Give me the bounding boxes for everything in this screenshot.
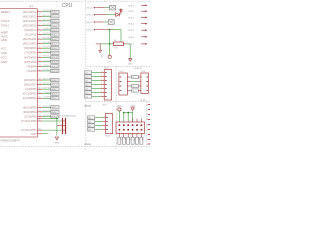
diode D2 vertical (120, 8, 122, 14)
IC U1 pin row (OC1B)PB2 with wire and net flag (37, 97, 42, 99)
svg-text:PD1-9: PD1-9 (51, 53, 56, 55)
fuse F2 (108, 20, 114, 25)
svg-text:5V3-3: 5V3-3 (87, 22, 94, 24)
junction row4 top (109, 29, 111, 31)
svg-text:OC1A)PB1: OC1A)PB1 (43, 91, 52, 94)
svg-text:(TOSC1)PB6: (TOSC1)PB6 (21, 119, 37, 123)
svg-text:JP/SV IO: JP/SV IO (134, 68, 143, 70)
svg-text:CPU: CPU (62, 3, 73, 9)
resistor R2 4.7k (114, 42, 124, 46)
diode D1 (116, 13, 120, 17)
IC U1 pin row (ICP)PB0 with wire and net flag (37, 88, 42, 90)
svg-text:(INT0)PD2: (INT0)PD2 (24, 55, 37, 59)
header JP1 top pin stubs (132, 119, 134, 122)
svg-text:(SDA)PC4: (SDA)PC4 (43, 27, 51, 30)
svg-text:ADC7)AD7: ADC7)AD7 (43, 41, 52, 44)
IC U1 pin row (ADC2)PC2 with wire and net flag (37, 20, 42, 22)
svg-text:5V3-4: 5V3-4 (128, 24, 135, 26)
svg-text:PD6-0: PD6-0 (51, 80, 56, 82)
ground symbol GND right of R2 (129, 59, 132, 62)
svg-text:GND: GND (54, 143, 59, 145)
svg-text:INT1)PD3: INT1)PD3 (43, 60, 51, 62)
svg-text:3: 3 (101, 79, 102, 81)
svg-text:(MISO)PB4: (MISO)PB4 (23, 110, 37, 114)
svg-text:4: 4 (39, 19, 40, 21)
svg-text:15: 15 (39, 69, 41, 71)
wire GND vertical from resonator center (56, 118, 58, 135)
svg-text:(ICP)PB0: (ICP)PB0 (25, 87, 37, 91)
svg-text:(RXD)PD0: (RXD)PD0 (43, 47, 52, 49)
svg-text:PD2-10: PD2-10 (51, 57, 57, 59)
svg-text:5V3-4: 5V3-4 (87, 30, 94, 32)
svg-text:17: 17 (39, 83, 41, 85)
svg-text:3: 3 (39, 15, 40, 17)
svg-text:A1: A1 (88, 120, 90, 123)
IC U1 ATMEGA328P body (0, 8, 37, 10)
svg-text:PD7-1: PD7-1 (51, 84, 56, 86)
svg-text:PD4-12: PD4-12 (51, 66, 57, 68)
svg-text:12: 12 (39, 56, 41, 58)
svg-text:PB5-7: PB5-7 (51, 116, 56, 118)
svg-text:(ADC2)PC2: (ADC2)PC2 (23, 19, 37, 23)
header JP1 body (116, 122, 145, 133)
connector SV2 wires and flags (88, 116, 95, 119)
svg-text:23: 23 (39, 115, 41, 117)
cropped neighbor section pins right edge (148, 104, 150, 106)
svg-text:więcej: więcej (84, 143, 91, 146)
svg-text:PD5-13: PD5-13 (51, 71, 57, 73)
svg-text:PC2-2: PC2-2 (51, 21, 56, 23)
svg-text:7: 7 (39, 33, 40, 35)
svg-text:GND: GND (100, 54, 102, 59)
svg-text:SV2: SV2 (103, 105, 108, 107)
svg-text:R2: R2 (114, 40, 116, 42)
svg-text:więcej: więcej (84, 104, 91, 107)
svg-text:ADC2)PC2: ADC2)PC2 (43, 18, 52, 21)
IC U1 pin GND wire (37, 133, 42, 135)
svg-text:4.7k: 4.7k (114, 48, 118, 50)
svg-text:(MOSI)PB3: (MOSI)PB3 (23, 105, 37, 109)
svg-text:P0: P0 (119, 138, 121, 140)
svg-text:PD0-8: PD0-8 (51, 48, 56, 50)
svg-text:5V3-1: 5V3-1 (87, 8, 94, 10)
svg-text:5: 5 (101, 87, 102, 89)
svg-text:PB3-5: PB3-5 (51, 107, 56, 109)
svg-text:D4: D4 (85, 88, 87, 90)
svg-text:VCC: VCC (1, 55, 7, 59)
svg-text:INT0)PD2: INT0)PD2 (43, 56, 51, 58)
svg-text:21: 21 (39, 106, 41, 108)
wire to resistor (110, 43, 114, 45)
connector SV4 body (141, 73, 149, 94)
svg-text:ADC1)PC1: ADC1)PC1 (43, 14, 52, 17)
svg-text:GND: GND (128, 64, 133, 66)
svg-text:GND: GND (1, 51, 7, 55)
svg-text:6: 6 (39, 28, 40, 30)
svg-text:(T1)PD5: (T1)PD5 (27, 69, 37, 73)
IC U1 pin row (T0)PD4 with wire and net flag (37, 65, 42, 67)
wire row1 (96, 7, 104, 9)
svg-text:(ADC7)AD7: (ADC7)AD7 (23, 42, 37, 46)
net flags between connectors (132, 75, 139, 78)
svg-text:16: 16 (39, 78, 41, 80)
IC U1 pin row (MOSI)PB3 with wire and net flag (37, 106, 42, 108)
svg-text:2: 2 (39, 10, 40, 12)
svg-text:19: 19 (39, 92, 41, 94)
svg-text:1: 1 (101, 71, 102, 73)
IC U1 pin row (INT0)PD2 with wire and net flag (37, 56, 42, 58)
svg-text:PC0-0: PC0-0 (51, 12, 56, 14)
IC U1 pin row (MISO)PB4 with wire and net flag (37, 111, 42, 113)
svg-text:(T0)PD4: (T0)PD4 (43, 65, 50, 67)
svg-text:PC1-1: PC1-1 (51, 16, 56, 18)
fuse F1 (110, 5, 116, 10)
svg-text:(ADC1)PC1: (ADC1)PC1 (23, 14, 37, 18)
junction dots header (123, 112, 125, 114)
svg-text:(ADC3)PC3: (ADC3)PC3 (23, 23, 37, 27)
svg-text:20: 20 (39, 97, 41, 99)
svg-text:ADC6)AD6: ADC6)AD6 (43, 37, 52, 40)
ground symbol GND below resonator (55, 137, 58, 140)
svg-text:XTAL2: XTAL2 (1, 19, 10, 23)
wire row3 (96, 21, 103, 23)
svg-text:(TXD)PD1: (TXD)PD1 (43, 51, 51, 53)
svg-text:10: 10 (39, 47, 41, 49)
svg-text:5V3-5: 5V3-5 (128, 30, 135, 32)
svg-text:(ADC6)AD6: (ADC6)AD6 (23, 37, 37, 41)
svg-text:5V3-1: 5V3-1 (128, 5, 135, 7)
svg-text:D2: D2 (122, 11, 124, 13)
svg-text:(SCL)PC5: (SCL)PC5 (43, 33, 51, 35)
IC U1 pin row (AIN1)PD7 with wire and net flag (37, 84, 42, 86)
svg-text:GND: GND (1, 60, 7, 64)
svg-text:VCC: VCC (1, 46, 7, 50)
svg-text:A0: A0 (88, 116, 90, 119)
wire junction to flag (100, 43, 109, 45)
IC U1 pin row (SDA)PC4 with wire and net flag (37, 29, 42, 31)
CPU section dashed border (0, 0, 85, 2)
IC U1 pin row (SCK)PB5 with wire and net flag (37, 115, 42, 117)
IC U1 pin row (ADC7)AD7 with wire and net flag (37, 43, 42, 45)
svg-text:13: 13 (39, 60, 41, 62)
wire row2 (96, 14, 106, 16)
svg-text:GND: GND (31, 132, 37, 136)
svg-text:5V3-6: 5V3-6 (128, 37, 135, 39)
svg-text:MOSI)PB3: MOSI)PB3 (43, 106, 52, 108)
connector SV1 wires and net flags (85, 71, 92, 74)
svg-text:14: 14 (39, 65, 41, 67)
svg-text:18: 18 (39, 87, 41, 89)
supply symbol VCC below row4 (108, 55, 111, 58)
IC U1 pin PB6(XTAL1) wire to resonator (37, 120, 42, 122)
svg-text:(SDA)PC4: (SDA)PC4 (24, 28, 37, 32)
svg-text:ADC3)PC3: ADC3)PC3 (43, 23, 52, 26)
svg-text:5V3-2: 5V3-2 (128, 11, 135, 13)
svg-text:(OC1B)PB2: (OC1B)PB2 (23, 96, 37, 100)
svg-text:5V3-7: 5V3-7 (128, 44, 135, 46)
svg-text:9: 9 (39, 119, 40, 121)
svg-text:D5: D5 (85, 92, 87, 94)
svg-text:VCC: VCC (107, 62, 112, 64)
svg-text:(INT1)PD3: (INT1)PD3 (24, 60, 37, 64)
IC U1 pin row (RXD)PD0 with wire and net flag (37, 47, 42, 49)
svg-text:JP M0: JP M0 (140, 100, 147, 102)
svg-text:ADC0)PC0: ADC0)PC0 (43, 9, 52, 12)
svg-text:P2: P2 (128, 138, 130, 140)
svg-text:(SCK)PB5: (SCK)PB5 (24, 114, 37, 118)
IC U1 pin row (OC1A)PB1 with wire and net flag (37, 93, 42, 95)
svg-text:(ICP)PB0: (ICP)PB0 (43, 88, 51, 90)
resonator Y1 center pin stub (57, 125, 62, 127)
svg-text:6: 6 (101, 91, 102, 93)
svg-text:P5: P5 (141, 138, 143, 140)
svg-text:PB0-2: PB0-2 (51, 89, 56, 91)
svg-text:SV3: SV3 (119, 71, 124, 73)
IC U1 pin PB7(XTAL2) wire to resonator (37, 129, 42, 131)
IC U1 pin row (SCL)PC5 with wire and net flag (37, 34, 42, 36)
svg-text:4: 4 (101, 83, 102, 85)
wire row4 with bends (96, 29, 113, 31)
svg-text:AD7-7: AD7-7 (51, 43, 56, 46)
svg-text:OC1B)PB2: OC1B)PB2 (43, 97, 52, 99)
svg-text:PB2-4: PB2-4 (51, 98, 56, 100)
svg-text:5V3-2: 5V3-2 (87, 15, 94, 17)
svg-text:AIN0)PD6: AIN0)PD6 (43, 77, 51, 80)
svg-text:(ADC0)PC0: (ADC0)PC0 (23, 10, 37, 14)
svg-text:(SCL)PC5: (SCL)PC5 (25, 33, 37, 37)
svg-text:P3: P3 (132, 138, 134, 140)
wires from VCC and GND to header (118, 111, 120, 122)
svg-text:AIN1)PD7: AIN1)PD7 (43, 82, 51, 85)
connector SV1 body (104, 70, 111, 100)
svg-text:PB1-3: PB1-3 (51, 94, 56, 96)
IC U1 pin row (ADC3)PC3 with wire and net flag (37, 24, 42, 26)
svg-text:A2: A2 (88, 124, 90, 127)
svg-text:D3: D3 (85, 84, 87, 86)
svg-text:MISO)PB4: MISO)PB4 (43, 110, 52, 112)
svg-text:GND: GND (1, 38, 7, 42)
svg-text:9: 9 (39, 42, 40, 44)
junction resonator GND (56, 118, 58, 120)
IC U1 pin row (AIN0)PD6 with wire and net flag (37, 79, 42, 81)
IC U1 pin row (INT1)PD3 with wire and net flag (37, 61, 42, 63)
svg-text:22: 22 (39, 110, 41, 112)
svg-text:5V3-3: 5V3-3 (128, 17, 135, 19)
resonator Y1 CSTCE16M0V53 body (62, 118, 63, 134)
svg-text:1X04: 1X04 (105, 136, 111, 138)
svg-text:AD6-6: AD6-6 (51, 38, 56, 41)
svg-text:RESET: RESET (1, 10, 11, 14)
svg-text:(TOSC2)PB7: (TOSC2)PB7 (21, 128, 37, 132)
svg-text:D0: D0 (85, 72, 87, 74)
right sections dashed borders (87, 0, 150, 2)
svg-text:A3: A3 (88, 128, 90, 131)
svg-text:D2: D2 (85, 80, 87, 82)
svg-text:8: 8 (39, 37, 40, 39)
svg-text:D1: D1 (85, 76, 87, 78)
IC U1 pin row (ADC0)PC0 with wire and net flag (37, 11, 42, 13)
ground flag left of R2 (96, 43, 100, 45)
IC U1 pin row (T1)PD5 with wire and net flag (37, 70, 42, 72)
IC U1 pin row (ADC6)AD6 with wire and net flag (37, 38, 42, 40)
svg-text:PD3-11: PD3-11 (51, 62, 57, 64)
svg-text:CSTCE16M0V53-R0: CSTCE16M0V53-R0 (57, 115, 76, 117)
svg-text:5: 5 (39, 24, 40, 26)
svg-text:(AIN1)PD7: (AIN1)PD7 (24, 83, 37, 87)
svg-text:(RXD)PD0: (RXD)PD0 (24, 46, 37, 50)
svg-text:7: 7 (101, 95, 102, 97)
svg-text:11: 11 (39, 51, 41, 53)
svg-text:P4: P4 (137, 138, 139, 140)
header JP1 bottom pin stubs (118, 133, 120, 137)
svg-text:IC1: IC1 (29, 5, 33, 8)
svg-text:(T0)PD4: (T0)PD4 (27, 64, 37, 68)
svg-text:(OC1A)PB1: (OC1A)PB1 (23, 92, 37, 96)
header JP1 bottom net flags (118, 137, 121, 144)
svg-text:P1: P1 (124, 138, 126, 140)
IC U1 pin row (TXD)PD1 with wire and net flag (37, 52, 42, 54)
svg-text:D6: D6 (85, 96, 87, 98)
svg-text:PC3-3: PC3-3 (51, 25, 56, 27)
svg-text:XTAL1: XTAL1 (1, 24, 10, 28)
wire resistor to GND (127, 43, 131, 45)
connector SV4 left pins (138, 76, 141, 78)
IC U1 pin row (ADC1)PC1 with wire and net flag (37, 15, 42, 17)
svg-text:(SCK)PB5: (SCK)PB5 (43, 115, 51, 117)
svg-text:PB4-6: PB4-6 (51, 112, 56, 114)
svg-text:10: 10 (39, 128, 41, 130)
connector SV3 right pins and wires (127, 76, 130, 78)
svg-text:(AIN0)PD6: (AIN0)PD6 (24, 78, 37, 82)
svg-text:PC5-5: PC5-5 (51, 34, 56, 36)
svg-text:5V4: 5V4 (141, 71, 146, 73)
connector SV3 body (119, 73, 127, 95)
connector SV2 body (105, 114, 112, 134)
svg-text:ATMEGA328P-P: ATMEGA328P-P (0, 138, 20, 142)
svg-text:2: 2 (101, 75, 102, 77)
junction R2 left (109, 43, 111, 45)
svg-text:(T1)PD5: (T1)PD5 (43, 69, 50, 71)
svg-text:PC4-4: PC4-4 (51, 30, 56, 32)
svg-text:(TXD)PD1: (TXD)PD1 (24, 51, 37, 55)
